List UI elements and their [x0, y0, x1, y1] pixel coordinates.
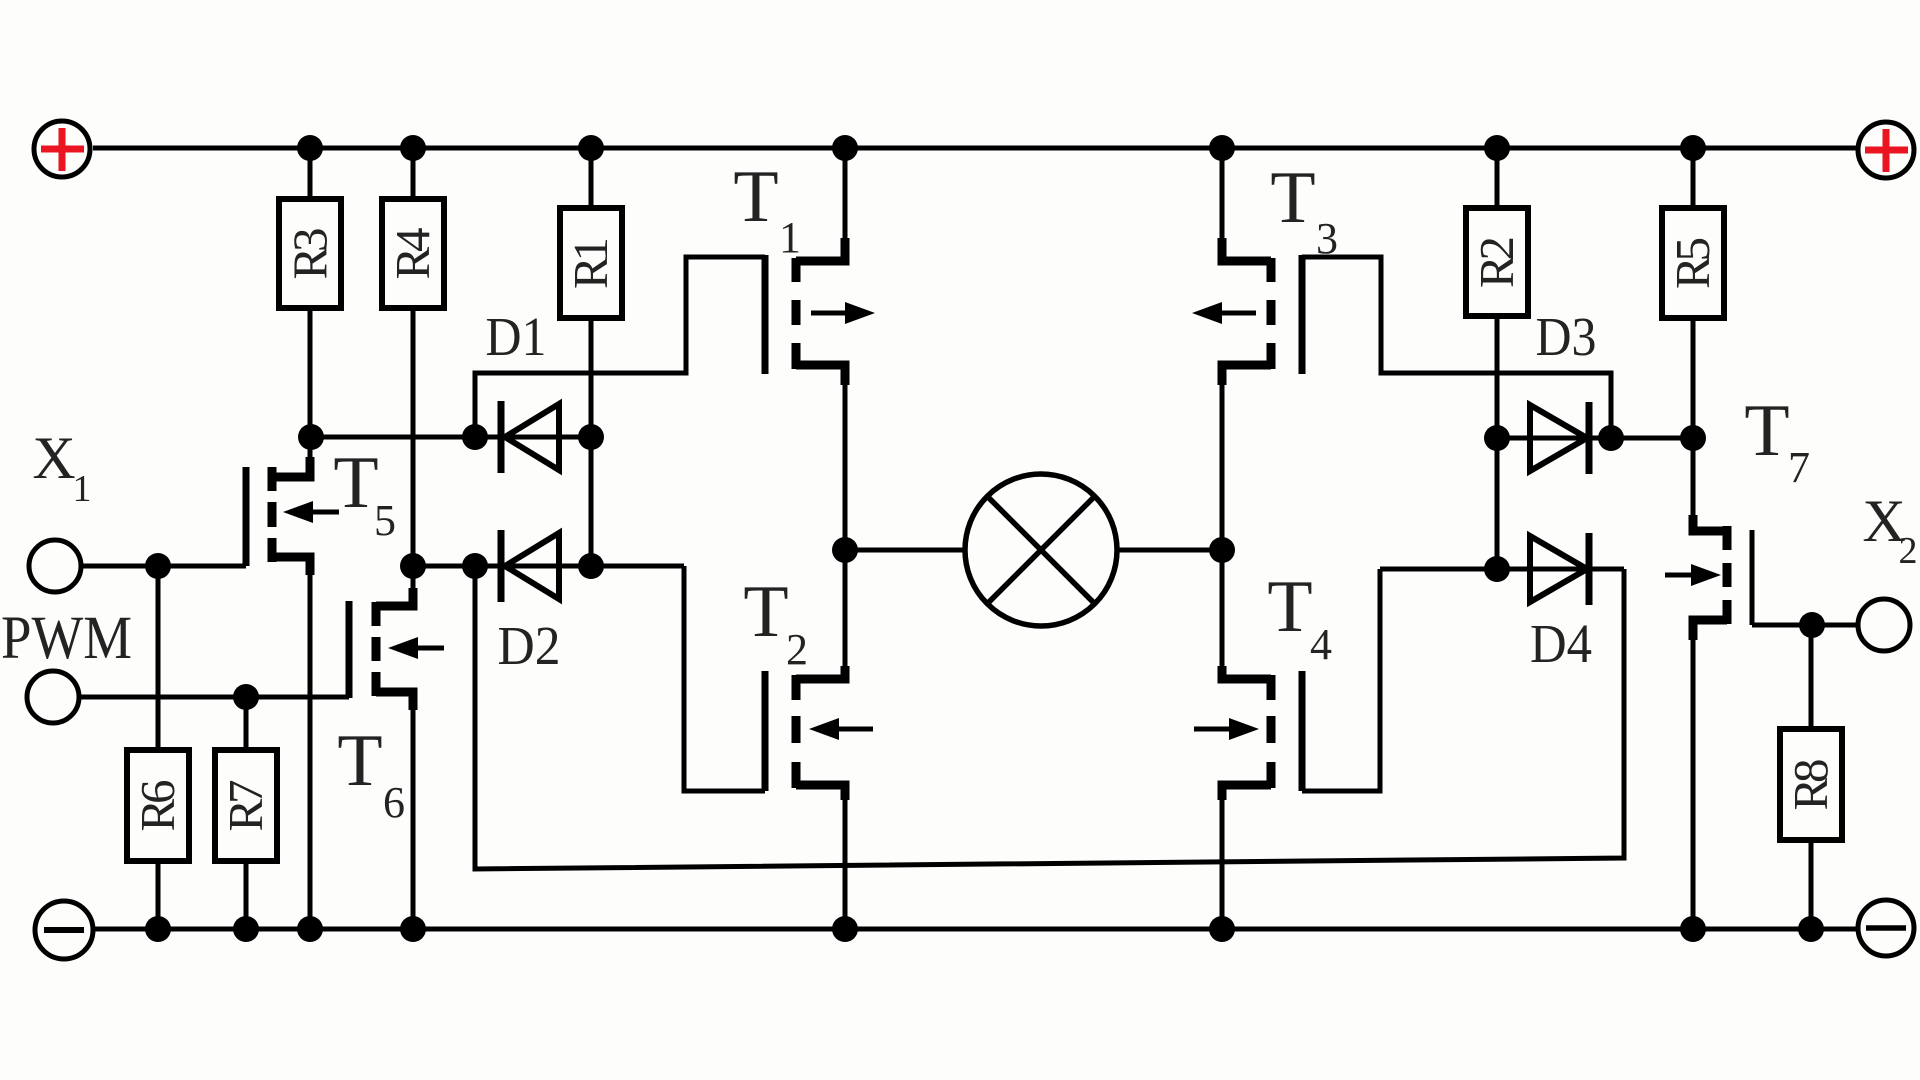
- resistor R8: [1780, 625, 1842, 929]
- svg-text:7: 7: [1788, 443, 1810, 492]
- svg-text:5: 5: [374, 496, 396, 545]
- lamp load: [965, 474, 1117, 626]
- wire T1 gate net: [475, 257, 765, 437]
- label T4: [1267, 566, 1332, 669]
- svg-text:D2: D2: [498, 615, 561, 676]
- svg-text:R4: R4: [385, 228, 440, 280]
- terminal - left: [35, 901, 93, 959]
- svg-text:T: T: [1744, 390, 1789, 472]
- terminal + right: [1858, 122, 1914, 178]
- terminal X1: [29, 540, 81, 592]
- label T3: [1270, 157, 1338, 263]
- junction dots node A row D1: [298, 424, 604, 450]
- junction dots lamp nodes: [832, 537, 1235, 563]
- label T5: [333, 442, 396, 545]
- svg-text:R2: R2: [1469, 236, 1524, 288]
- transistor T7: [1665, 438, 1858, 929]
- label T2: [743, 571, 808, 674]
- svg-text:T: T: [733, 156, 778, 238]
- svg-text:4: 4: [1310, 620, 1332, 669]
- svg-text:R6: R6: [130, 780, 185, 832]
- svg-text:2: 2: [1899, 530, 1918, 572]
- svg-text:D1: D1: [486, 306, 547, 367]
- terminal - right: [1858, 900, 1914, 956]
- resistor R5: [1662, 148, 1724, 438]
- wire T3 gate net: [1302, 257, 1611, 438]
- wire T2 gate net: [684, 566, 765, 791]
- label X1: [32, 425, 91, 510]
- svg-text:T: T: [333, 442, 378, 524]
- transistor T4: [1194, 550, 1302, 929]
- svg-text:R3: R3: [283, 228, 338, 280]
- junction dot X2 node: [1799, 612, 1825, 638]
- transistor T3: [1192, 148, 1302, 550]
- junction dots top rail: [297, 135, 1706, 161]
- svg-text:R7: R7: [218, 780, 273, 832]
- wire top supply rail: [93, 146, 1858, 151]
- resistor R3: [279, 148, 341, 437]
- resistor R4: [382, 148, 444, 566]
- diode D4: [1380, 533, 1624, 605]
- wire bottom supply rail: [95, 927, 1857, 932]
- transistor T5: [246, 437, 339, 929]
- junction dots bottom rail: [145, 916, 1824, 942]
- svg-text:3: 3: [1316, 214, 1338, 263]
- svg-text:T: T: [337, 720, 382, 802]
- diode D1: [311, 401, 591, 473]
- junction dot PWM node: [233, 684, 259, 710]
- svg-text:6: 6: [383, 778, 405, 827]
- terminal PWM: [27, 671, 79, 723]
- wire cross coupling D2 cathode to D4 cathode: [475, 566, 1624, 869]
- svg-text:T: T: [1267, 566, 1312, 648]
- wire X1 input: [81, 564, 246, 569]
- svg-text:R1: R1: [563, 237, 618, 289]
- wire lamp right: [1117, 548, 1222, 553]
- svg-text:T: T: [743, 571, 788, 653]
- svg-text:D3: D3: [1536, 306, 1597, 367]
- svg-text:R8: R8: [1783, 759, 1838, 811]
- svg-text:1: 1: [779, 213, 801, 262]
- transistor T2: [765, 550, 873, 929]
- resistor R6: [127, 566, 189, 929]
- diode D2: [413, 530, 684, 602]
- wire PWM input: [79, 695, 349, 700]
- label T7: [1744, 390, 1810, 492]
- junction dots row D3: [1484, 425, 1706, 451]
- svg-text:1: 1: [73, 468, 92, 510]
- resistor R1: [560, 148, 622, 566]
- diode D3: [1497, 402, 1693, 474]
- svg-text:D4: D4: [1530, 613, 1592, 674]
- wire lamp left: [845, 548, 965, 553]
- label X2: [1862, 488, 1917, 572]
- junction dots node B row D2: [145, 553, 604, 579]
- label T6: [337, 720, 405, 827]
- terminal + left: [34, 121, 90, 177]
- svg-text:X: X: [32, 425, 75, 491]
- svg-text:R5: R5: [1665, 237, 1720, 289]
- transistor T1: [765, 148, 875, 550]
- resistor R7: [215, 697, 277, 929]
- wire T4 gate net: [1302, 569, 1380, 791]
- label T1: [733, 156, 801, 262]
- svg-text:2: 2: [786, 625, 808, 674]
- svg-text:PWM: PWM: [1, 605, 132, 672]
- terminal X2: [1858, 599, 1910, 651]
- junction dot row D4: [1484, 556, 1510, 582]
- transistor T6: [349, 566, 444, 929]
- svg-text:T: T: [1270, 157, 1315, 239]
- resistor R2: [1466, 148, 1528, 569]
